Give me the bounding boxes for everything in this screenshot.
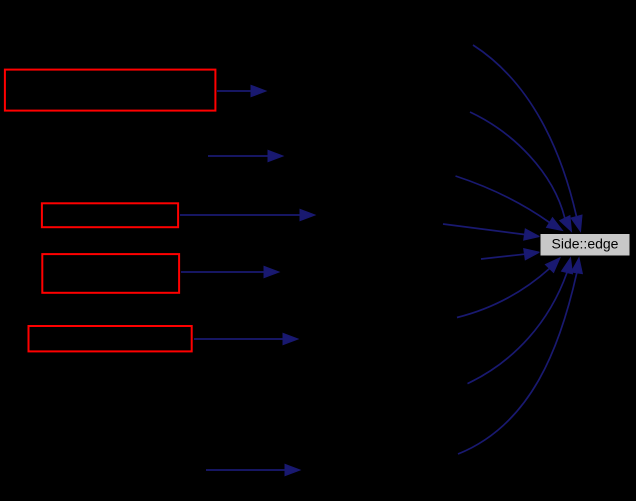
node box4 (red-bordered caller node) <box>29 326 192 351</box>
node box3 (red-bordered caller node) <box>42 254 179 293</box>
node box2 (red-bordered caller node) <box>42 203 178 227</box>
svg-text:Side::edge: Side::edge <box>552 236 619 252</box>
node Side::edge (current node, gray fill) <box>540 234 630 257</box>
node box1 (red-bordered caller node) <box>5 70 216 111</box>
arrow A3 from box2 <box>180 209 315 220</box>
edge C4 (caller edge into Side::edge) <box>443 224 540 240</box>
arrow A5 from box4 <box>194 333 298 344</box>
arrow A6 <box>206 464 300 475</box>
edge C3 (caller edge into Side::edge) <box>456 176 563 231</box>
arrow A4 from box3 <box>181 266 279 277</box>
edge C5 (caller edge into Side::edge) <box>481 249 540 260</box>
edge C6 (caller edge into Side::edge) <box>457 258 560 318</box>
edge C1 (caller edge into Side::edge) <box>473 45 582 232</box>
edge C7 (caller edge into Side::edge) <box>468 258 573 384</box>
edge C8 (caller edge into Side::edge) <box>458 258 582 454</box>
arrow A1 from box1 <box>217 85 266 96</box>
edge C2 (caller edge into Side::edge) <box>470 112 572 232</box>
arrow A2 <box>208 150 283 161</box>
